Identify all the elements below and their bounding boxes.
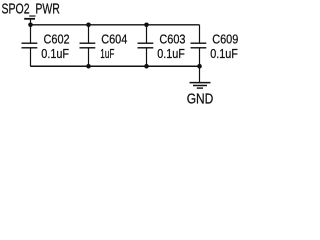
svg-text:C604: C604 xyxy=(101,32,127,47)
junction dot top C602 xyxy=(28,23,33,28)
svg-text:C602: C602 xyxy=(44,32,70,47)
capacitor C602 xyxy=(22,25,38,67)
junction dot bottom C604 xyxy=(86,64,91,69)
power symbol bar xyxy=(24,18,35,20)
svg-text:1uF: 1uF xyxy=(100,46,114,61)
junction dot top C603 xyxy=(144,23,149,28)
junction dot top C604 xyxy=(86,23,91,28)
ground symbol xyxy=(190,83,211,89)
svg-text:0.1uF: 0.1uF xyxy=(41,46,69,61)
wire bottom rail xyxy=(31,65,200,67)
svg-text:SPO2_PWR: SPO2_PWR xyxy=(2,1,60,17)
svg-text:0.1uF: 0.1uF xyxy=(210,46,238,61)
svg-text:C603: C603 xyxy=(159,32,185,47)
capacitor C604 xyxy=(80,25,96,67)
capacitor C603 xyxy=(138,25,154,67)
junction dot bottom GND stem xyxy=(197,64,202,69)
wire top rail xyxy=(31,24,200,26)
svg-text:C609: C609 xyxy=(212,32,238,47)
wire GND stem xyxy=(199,66,201,82)
svg-text:GND: GND xyxy=(187,92,214,107)
capacitor C609 xyxy=(191,25,207,67)
svg-text:0.1uF: 0.1uF xyxy=(157,46,185,61)
junction dot bottom C603 xyxy=(144,64,149,69)
power symbol stem xyxy=(30,19,32,26)
